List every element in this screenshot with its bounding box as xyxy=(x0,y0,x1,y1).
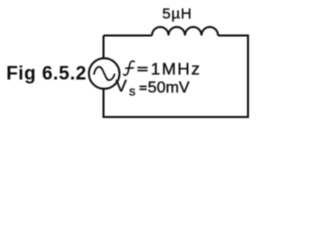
svg-text:Fig 6.5.2: Fig 6.5.2 xyxy=(6,64,87,85)
svg-text:1MHz: 1MHz xyxy=(151,60,201,79)
svg-text:50mV: 50mV xyxy=(148,79,190,96)
svg-text:V: V xyxy=(116,76,128,95)
svg-text:5µH: 5µH xyxy=(162,5,192,22)
svg-text:s: s xyxy=(129,84,136,99)
